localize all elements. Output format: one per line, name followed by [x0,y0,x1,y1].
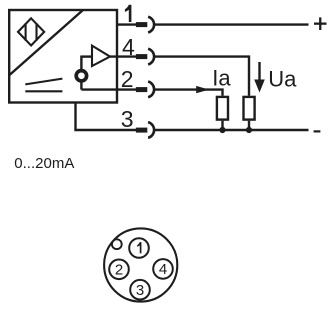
current direction arrowhead on wire 2 [196,86,209,93]
wire R2 bottom stub [248,121,250,130]
wire 3 to - supply [155,129,309,131]
connector face pin 4 circle [153,259,173,279]
connector face view: coding notch circle [112,239,122,249]
connector face pin 1 number [137,242,141,253]
pin 4 connector contact (plug pin) [136,54,147,59]
pin 4 connector socket arc [148,49,154,65]
adjustment symbol slanted line [25,79,62,85]
pin 1 connector socket arc [148,17,154,33]
junction dot at R2 / wire 3 [246,127,252,133]
svg-text:4: 4 [159,261,167,278]
connector face pin 1 circle [129,238,149,258]
svg-text:Ua: Ua [268,67,297,92]
wire 1 to + supply [155,23,309,25]
junction dot at R1 / wire 3 [219,127,225,133]
wire vertical above output circle [80,56,82,70]
wire 2 from circle to pin 2 contact [81,88,136,90]
pin number 1 label [125,5,131,22]
svg-text:4: 4 [122,34,135,60]
wire amplifier input horizontal [81,55,93,57]
op-amp amplifier triangle [92,46,110,66]
wire R1 bottom stub [221,121,223,130]
plus symbol of supply [314,23,327,25]
Ua voltage arrow (down) [258,62,260,82]
wire vertical from box bottom to wire 3 [76,103,137,131]
svg-text:2: 2 [115,262,123,279]
resistor R2 (load, Ua branch) [244,97,255,120]
output indicator circle [76,71,86,81]
wire 1 from box to pin 1 contact [117,23,137,25]
wire 2 to resistor R1 [155,90,223,96]
connector face pin 2 circle [109,260,129,280]
svg-text:2: 2 [121,66,134,92]
minus symbol of supply [314,130,321,132]
pin 2 connector contact (plug pin) [136,87,147,92]
wire vertical below output circle [80,82,82,90]
pin 2 connector socket arc [148,82,154,98]
svg-text:3: 3 [121,106,134,132]
connector face pin 3 circle [130,280,150,300]
diamond inner vertical line (left) [25,23,27,41]
svg-text:Ia: Ia [212,66,231,91]
adjustment symbol horizontal line [25,90,62,92]
inductive sensing face symbol (diamond) [18,18,44,45]
pin 3 connector contact (plug pin) [136,128,147,133]
connector face view: body circle [104,228,177,301]
sensor box outline [9,10,117,103]
svg-text:0...20mA: 0...20mA [14,155,74,172]
wire from amplifier apex to pin 1 contact (output, wire 4 inside box) [110,55,136,57]
diagonal separator line inside sensor box [10,10,84,75]
resistor R1 (load, Ia branch) [217,97,228,120]
pin 3 connector socket arc [148,122,154,138]
wire 4 to resistor R2 [155,57,249,96]
pin 1 connector contact (plug pin) [136,22,147,27]
svg-text:3: 3 [136,282,144,299]
diamond inner vertical line (right) [35,23,37,41]
